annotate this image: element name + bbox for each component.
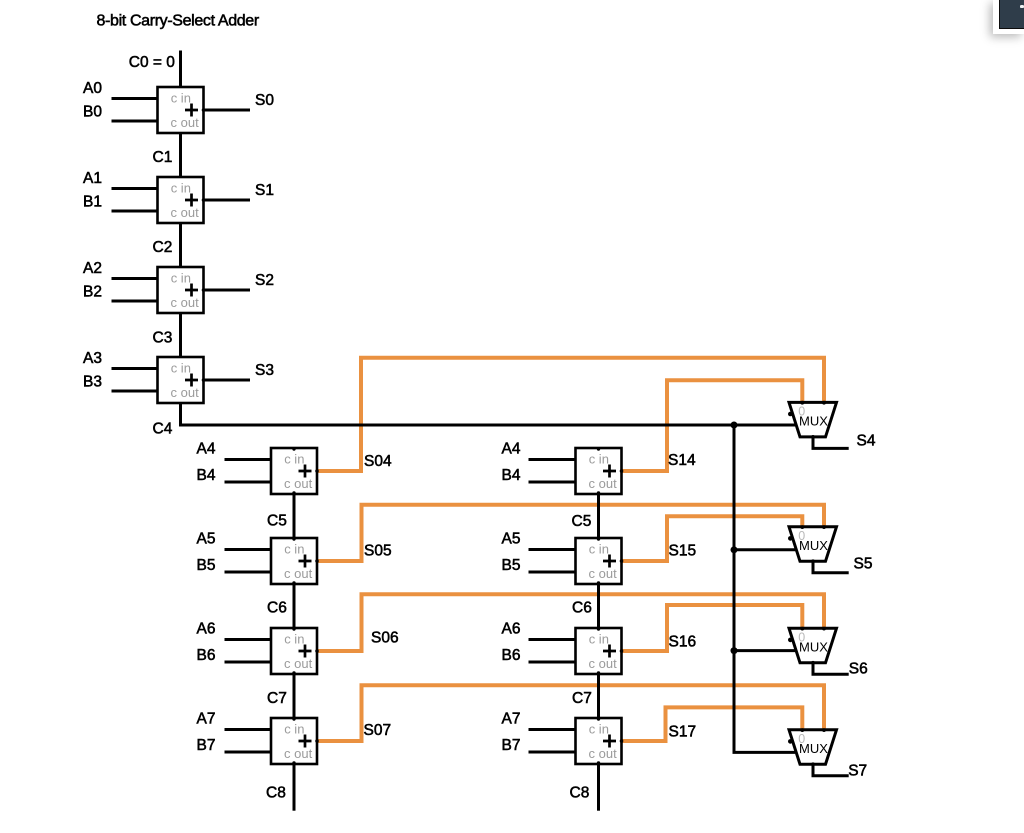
svg-text:S3: S3 bbox=[255, 362, 274, 379]
mux U3 (selects S6) bbox=[788, 627, 837, 665]
wire S06 (orange) from lower-0 adder to MUX input 1 bbox=[317, 594, 824, 651]
pin carry-in dot bbox=[292, 627, 295, 630]
full adder FA3 (bit 3) bbox=[158, 357, 206, 403]
wire A5 input (carry-1 block) bbox=[529, 548, 581, 551]
wire A7 input (carry-0 block) bbox=[225, 728, 276, 731]
svg-text:C8: C8 bbox=[570, 785, 590, 802]
full adder FA6a (carry-0 block) bbox=[271, 628, 319, 674]
svg-text:c in: c in bbox=[589, 541, 609, 556]
wire B7 input (carry-0 block) bbox=[225, 751, 276, 754]
pin carry-out dot bbox=[597, 761, 600, 764]
mux U4 (selects S7) bbox=[788, 728, 837, 766]
svg-text:S06: S06 bbox=[371, 630, 399, 647]
wire A2 input bbox=[112, 277, 163, 280]
wire B5 input (carry-0 block) bbox=[225, 571, 276, 574]
wire C6 carry chain (carry-0) bbox=[293, 583, 296, 629]
full adder FA7a (carry-0 block) bbox=[271, 718, 319, 764]
svg-text:A4: A4 bbox=[197, 441, 216, 458]
pin carry-out dot bbox=[292, 491, 295, 494]
full adder FA4b (carry-1 block) bbox=[576, 448, 624, 494]
pin carry-in dot bbox=[292, 537, 295, 540]
full adder FA6b (carry-1 block) bbox=[576, 628, 624, 674]
svg-text:c in: c in bbox=[589, 451, 609, 466]
svg-text:c in: c in bbox=[171, 90, 191, 105]
wire C7 carry chain (carry-1) bbox=[597, 673, 600, 719]
svg-text:B6: B6 bbox=[502, 647, 521, 664]
wire A4 input (carry-0 block) bbox=[225, 458, 276, 461]
wire S2 sum output bbox=[199, 289, 250, 292]
wire C5 carry chain (carry-0) bbox=[293, 493, 296, 539]
svg-text:C6: C6 bbox=[572, 600, 592, 617]
svg-text:c out: c out bbox=[589, 656, 618, 671]
svg-text:c out: c out bbox=[284, 566, 313, 581]
mux U1 (selects S4) bbox=[788, 401, 837, 439]
pin carry-in dot bbox=[597, 717, 600, 720]
svg-text:B3: B3 bbox=[83, 373, 102, 390]
svg-text:c out: c out bbox=[171, 115, 200, 130]
pin carry-in dot bbox=[597, 447, 600, 450]
svg-text:C7: C7 bbox=[267, 690, 287, 707]
svg-text:A5: A5 bbox=[197, 531, 216, 548]
wire C2 carry FA1 to FA2 bbox=[179, 222, 182, 268]
wire C8 carry-out stub (carry-1) bbox=[597, 763, 600, 811]
svg-text:c in: c in bbox=[171, 360, 191, 375]
wire S3 sum output bbox=[199, 379, 250, 382]
pin carry-out dot bbox=[292, 581, 295, 584]
wire A5 input (carry-0 block) bbox=[225, 548, 276, 551]
wire C8 carry-out stub (carry-0) bbox=[293, 763, 296, 811]
wire B3 input bbox=[112, 390, 163, 393]
svg-text:A6: A6 bbox=[502, 621, 521, 638]
junction select rail to MUX S5 bbox=[731, 546, 738, 553]
svg-text:c out: c out bbox=[171, 385, 200, 400]
wire A6 input (carry-1 block) bbox=[529, 638, 581, 641]
wire A0 input bbox=[112, 97, 163, 100]
wire B4 input (carry-0 block) bbox=[225, 481, 276, 484]
junction select rail to MUX S6 bbox=[731, 647, 738, 654]
wire C5 carry chain (carry-1) bbox=[597, 493, 600, 539]
wire C3 carry FA2 to FA3 bbox=[179, 312, 182, 358]
svg-text:c out: c out bbox=[284, 656, 313, 671]
svg-text:A0: A0 bbox=[83, 80, 102, 97]
svg-text:c in: c in bbox=[284, 631, 304, 646]
pin carry-out dot bbox=[292, 761, 295, 764]
wire B0 input bbox=[112, 120, 163, 123]
junction C4 rail at select column bbox=[731, 422, 738, 429]
svg-text:C2: C2 bbox=[153, 239, 173, 256]
full adder FA7b (carry-1 block) bbox=[576, 718, 624, 764]
svg-text:A4: A4 bbox=[502, 441, 521, 458]
wire S16 (orange) from lower-1 adder to MUX input 0 bbox=[622, 605, 803, 651]
wire B6 input (carry-0 block) bbox=[225, 661, 276, 664]
svg-text:S0: S0 bbox=[255, 92, 274, 109]
wire S4 MUX output bbox=[813, 434, 849, 448]
svg-text:c out: c out bbox=[284, 746, 313, 761]
wire select rail vertical (C4) feeding all MUXes bbox=[734, 425, 795, 752]
svg-text:B5: B5 bbox=[502, 557, 521, 574]
svg-text:B6: B6 bbox=[197, 647, 216, 664]
svg-text:MUX: MUX bbox=[799, 414, 828, 429]
svg-text:C1: C1 bbox=[153, 149, 173, 166]
svg-text:S14: S14 bbox=[668, 452, 696, 469]
wire C0 constant into FA0 carry-in bbox=[179, 51, 182, 89]
svg-text:C5: C5 bbox=[267, 513, 287, 530]
svg-text:C3: C3 bbox=[153, 330, 173, 347]
svg-text:S4: S4 bbox=[857, 433, 876, 450]
svg-text:B4: B4 bbox=[502, 467, 521, 484]
svg-text:c out: c out bbox=[171, 205, 200, 220]
wire S0 sum output bbox=[199, 109, 250, 112]
svg-text:B1: B1 bbox=[83, 193, 102, 210]
wire S5 MUX output bbox=[813, 559, 849, 573]
wire B7 input (carry-1 block) bbox=[529, 751, 581, 754]
svg-text:B7: B7 bbox=[502, 737, 521, 754]
svg-text:C4: C4 bbox=[153, 421, 173, 438]
svg-text:c in: c in bbox=[284, 721, 304, 736]
svg-text:S05: S05 bbox=[364, 543, 392, 560]
svg-text:c in: c in bbox=[589, 631, 609, 646]
svg-text:S7: S7 bbox=[848, 763, 867, 780]
wire C4 from FA3 carry-out to MUX select rail bbox=[181, 402, 796, 425]
pin carry-in dot bbox=[292, 447, 295, 450]
svg-text:A1: A1 bbox=[83, 170, 102, 187]
svg-text:C7: C7 bbox=[572, 690, 592, 707]
window corner widget (top-right) bbox=[993, 0, 1024, 34]
wire S1 sum output bbox=[199, 199, 250, 202]
wire C6 carry chain (carry-1) bbox=[597, 583, 600, 629]
pin carry-out dot bbox=[292, 671, 295, 674]
svg-text:S15: S15 bbox=[669, 543, 697, 560]
pin carry-out dot bbox=[597, 491, 600, 494]
svg-text:c in: c in bbox=[171, 180, 191, 195]
wire S17 (orange) from lower-1 adder to MUX input 0 bbox=[622, 707, 803, 741]
wire B2 input bbox=[112, 300, 163, 303]
svg-text:MUX: MUX bbox=[799, 538, 828, 553]
wire S05 (orange) from lower-0 adder to MUX input 1 bbox=[317, 505, 824, 561]
svg-text:c out: c out bbox=[589, 566, 618, 581]
svg-text:A5: A5 bbox=[502, 531, 521, 548]
svg-text:8-bit Carry-Select Adder: 8-bit Carry-Select Adder bbox=[97, 13, 260, 30]
svg-text:S07: S07 bbox=[364, 722, 392, 739]
svg-text:C5: C5 bbox=[572, 513, 592, 530]
wire S7 MUX output bbox=[813, 762, 849, 776]
wire S04 (orange) from lower-0 adder to MUX input 1 bbox=[317, 358, 824, 471]
svg-text:B7: B7 bbox=[197, 737, 216, 754]
svg-text:c out: c out bbox=[589, 746, 618, 761]
wire A1 input bbox=[112, 187, 163, 190]
svg-text:MUX: MUX bbox=[799, 741, 828, 756]
svg-text:S1: S1 bbox=[255, 182, 274, 199]
svg-text:S04: S04 bbox=[364, 453, 392, 470]
full adder FA5b (carry-1 block) bbox=[576, 538, 624, 584]
svg-text:B5: B5 bbox=[197, 557, 216, 574]
wire select branch to MUX S5 bbox=[734, 548, 797, 551]
svg-text:S5: S5 bbox=[854, 556, 873, 573]
wire select branch to MUX S6 bbox=[734, 649, 797, 652]
full adder FA0 (bit 0) bbox=[158, 87, 206, 133]
mux U2 (selects S5) bbox=[788, 525, 837, 563]
wire S15 (orange) from lower-1 adder to MUX input 0 bbox=[622, 516, 803, 561]
svg-text:A6: A6 bbox=[197, 621, 216, 638]
svg-text:B4: B4 bbox=[197, 467, 216, 484]
svg-text:c in: c in bbox=[284, 541, 304, 556]
svg-text:S6: S6 bbox=[849, 661, 868, 678]
wire A4 input (carry-1 block) bbox=[529, 458, 581, 461]
svg-text:S2: S2 bbox=[255, 272, 274, 289]
svg-text:c out: c out bbox=[589, 476, 618, 491]
wire S07 (orange) from lower-0 adder to MUX input 1 bbox=[317, 685, 824, 741]
wire B6 input (carry-1 block) bbox=[529, 661, 581, 664]
svg-text:A7: A7 bbox=[197, 711, 216, 728]
pin carry-out dot bbox=[597, 671, 600, 674]
svg-text:C6: C6 bbox=[267, 600, 287, 617]
wire B1 input bbox=[112, 210, 163, 213]
pin carry-in dot bbox=[292, 717, 295, 720]
wire A3 input bbox=[112, 367, 163, 370]
full adder FA2 (bit 2) bbox=[158, 267, 206, 313]
wire A7 input (carry-1 block) bbox=[529, 728, 581, 731]
pin carry-in dot bbox=[597, 627, 600, 630]
svg-text:c out: c out bbox=[284, 476, 313, 491]
svg-text:A2: A2 bbox=[83, 260, 102, 277]
wire S14 (orange) from lower-1 adder to MUX input 0 bbox=[622, 380, 803, 471]
wire S6 MUX output bbox=[813, 660, 849, 674]
full adder FA4a (carry-0 block) bbox=[271, 448, 319, 494]
svg-text:c in: c in bbox=[171, 270, 191, 285]
svg-text:c in: c in bbox=[284, 451, 304, 466]
full adder FA5a (carry-0 block) bbox=[271, 538, 319, 584]
wire C1 carry FA0 to FA1 bbox=[179, 132, 182, 178]
svg-text:c out: c out bbox=[171, 295, 200, 310]
wire B4 input (carry-1 block) bbox=[529, 481, 581, 484]
svg-text:MUX: MUX bbox=[799, 640, 828, 655]
svg-text:B0: B0 bbox=[83, 103, 102, 120]
svg-text:S17: S17 bbox=[669, 724, 697, 741]
svg-text:C8: C8 bbox=[266, 785, 286, 802]
svg-text:A3: A3 bbox=[83, 350, 102, 367]
svg-text:C0 = 0: C0 = 0 bbox=[129, 54, 175, 71]
wire C7 carry chain (carry-0) bbox=[293, 673, 296, 719]
pin carry-out dot bbox=[597, 581, 600, 584]
svg-text:S16: S16 bbox=[669, 634, 697, 651]
wire B5 input (carry-1 block) bbox=[529, 571, 581, 574]
pin carry-in dot bbox=[597, 537, 600, 540]
full adder FA1 (bit 1) bbox=[158, 177, 206, 223]
wire A6 input (carry-0 block) bbox=[225, 638, 276, 641]
svg-text:A7: A7 bbox=[502, 711, 521, 728]
svg-text:B2: B2 bbox=[83, 283, 102, 300]
svg-text:c in: c in bbox=[589, 721, 609, 736]
